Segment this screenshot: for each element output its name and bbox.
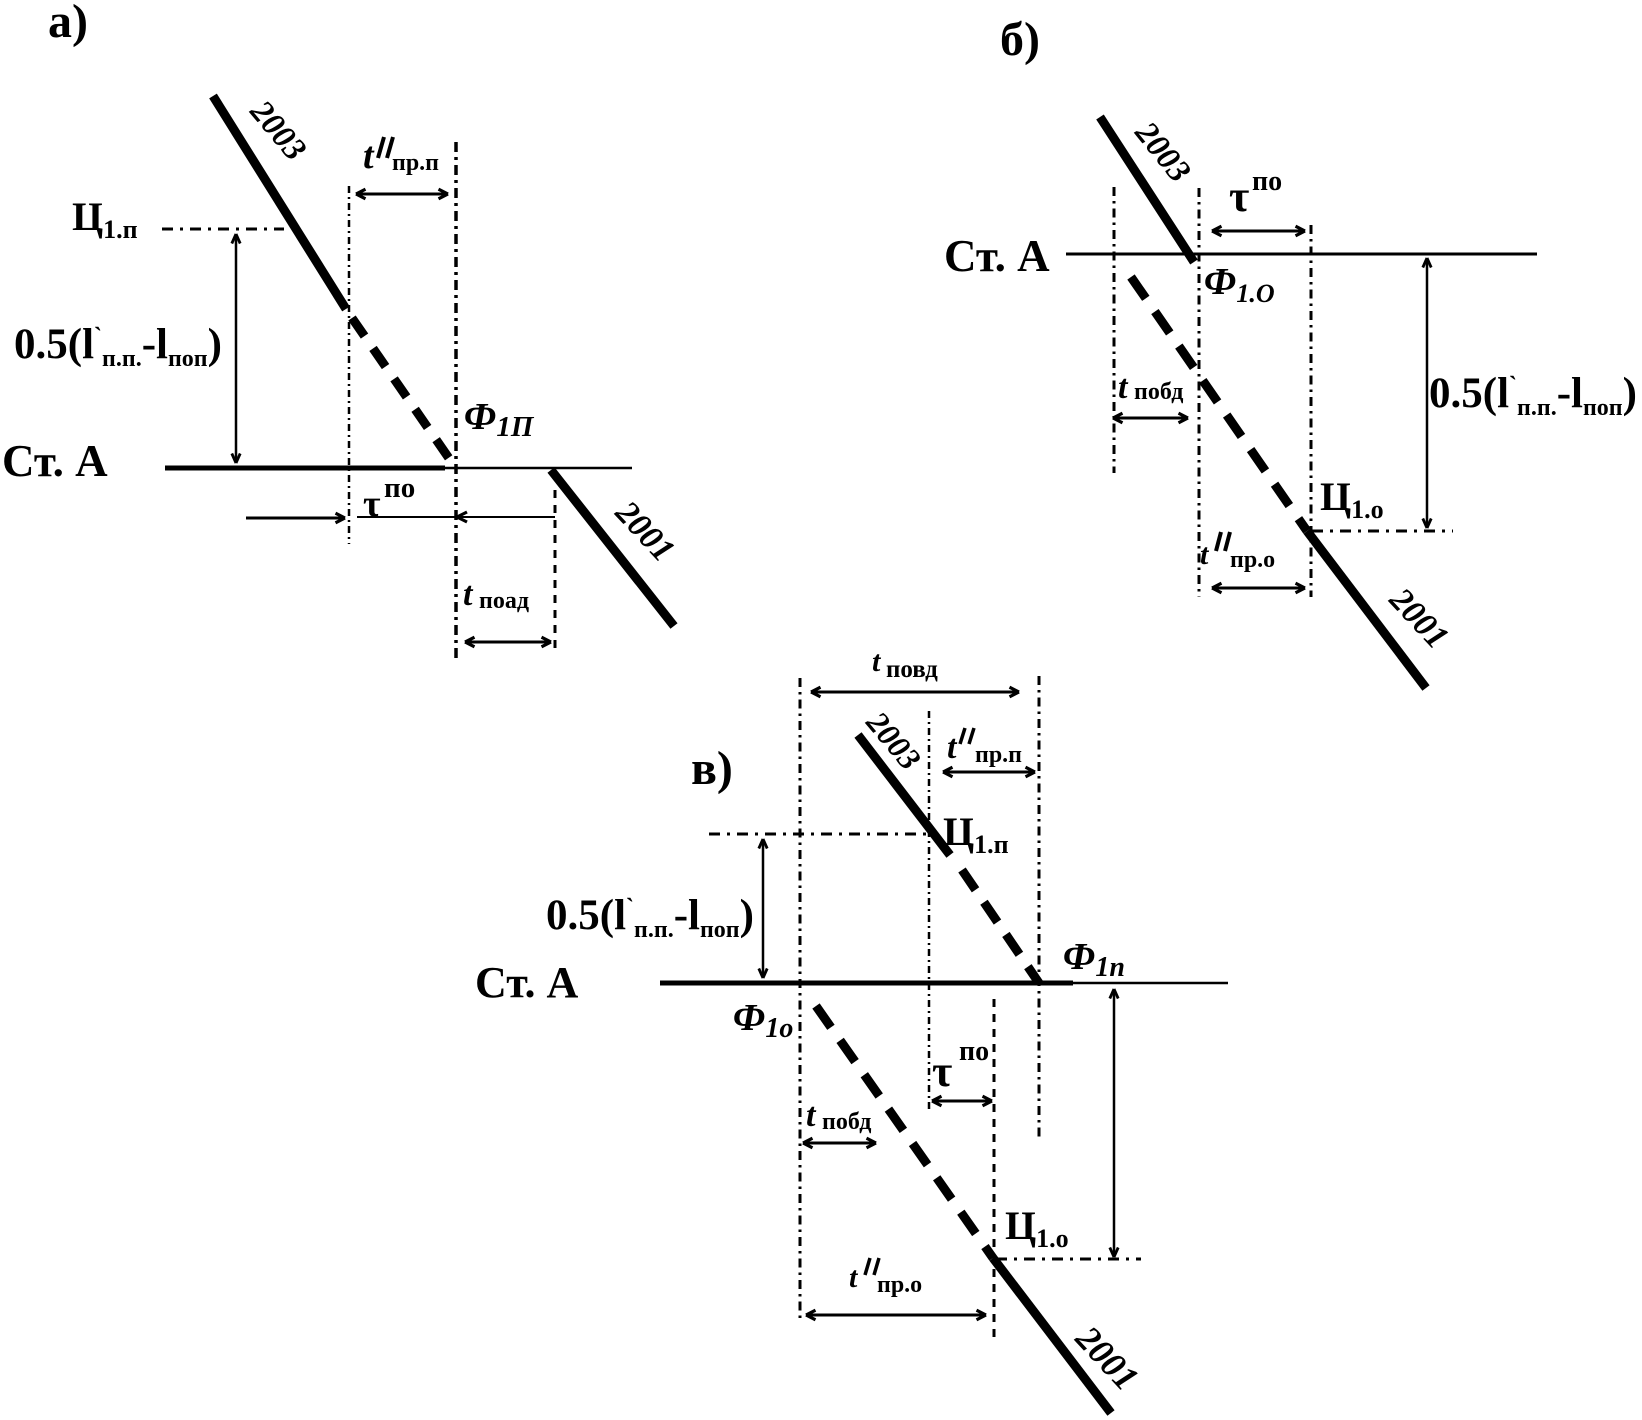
svg-text:по: по (959, 1036, 989, 1067)
svg-text:t: t (947, 729, 958, 766)
svg-text:по: по (1252, 166, 1282, 197)
svg-text:пр.п: пр.п (392, 150, 439, 176)
svg-text:t: t (1118, 369, 1129, 406)
svg-text:а): а) (48, 0, 88, 48)
svg-text:повд: повд (886, 656, 938, 683)
svg-text:б): б) (1000, 13, 1040, 66)
svg-text:побд: побд (822, 1109, 871, 1135)
svg-text:Ст. А: Ст. А (2, 436, 108, 486)
svg-text:Ст. А: Ст. А (944, 231, 1050, 281)
svg-text:Ст. А: Ст. А (475, 958, 579, 1007)
svg-text:t: t (806, 1097, 817, 1134)
svg-text:τ: τ (1229, 172, 1249, 221)
svg-text:t: t (463, 576, 474, 613)
svg-text:в): в) (691, 742, 733, 795)
svg-text:τ: τ (932, 1047, 952, 1096)
svg-text:τ: τ (363, 483, 381, 525)
svg-text:пр.п: пр.п (975, 742, 1022, 768)
svg-text:по: по (384, 472, 415, 504)
svg-text:пр.о: пр.о (877, 1272, 922, 1298)
svg-text:t: t (363, 135, 375, 177)
svg-text:пр.о: пр.о (1230, 547, 1275, 573)
svg-text:поад: поад (479, 588, 529, 614)
svg-text:побд: побд (1134, 379, 1183, 405)
